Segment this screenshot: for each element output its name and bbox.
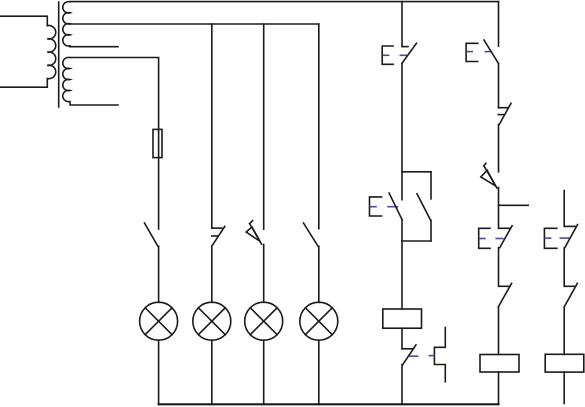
wire: parallel section bottom tee (402, 240, 431, 242)
wire: lamp branch 3 drop (263, 24, 265, 229)
pushbutton E (NC) top of branch A : label E (382, 46, 393, 64)
wire: K3 bottom stub (563, 372, 565, 404)
pushbutton E mid branch A : NO contact blade (389, 193, 402, 220)
wire: branch B to coil K2 (498, 307, 500, 355)
mechanical link blue dash left (410, 355, 417, 357)
wire: branch C (563, 248, 565, 286)
NC contact (double tick) branch B (498, 103, 511, 124)
NC contact above coil K2 (498, 283, 511, 307)
wire: aux contact to bottom rail (401, 365, 403, 405)
wire: branch C stub top (563, 191, 565, 227)
fuse F1 (153, 129, 162, 157)
aux NC contact below K1 (402, 345, 416, 365)
wire: branch B below triangle contact (498, 188, 500, 229)
lamp H2 (193, 302, 231, 404)
wire: top rail from secondary 1 top terminal (70, 1, 499, 3)
pushbutton E branch C : label E (544, 228, 556, 248)
wire: parallel section top tee (402, 171, 431, 173)
pushbutton E branch C : NC contact (565, 225, 578, 248)
parallel right contact (NO) upper wire (430, 172, 432, 199)
pushbutton E top branch B : NO contact blade (484, 40, 499, 64)
switch S2 (NC contact with ticks) (212, 226, 225, 302)
wire through fuse down to switch S1 (158, 129, 160, 229)
transformer T1 core (58, 2, 60, 107)
switch S4 (NO, blade left) (304, 223, 319, 302)
switch S1 (NO, blade left) (145, 223, 159, 302)
wire: secondary 2 feed to fuse branch (70, 58, 159, 130)
pushbutton E top branch B : label E (466, 43, 478, 61)
NC contact above coil K3 (564, 283, 577, 307)
wire: branch A to coil K1 (401, 241, 403, 309)
wire: branch A between contacts (401, 63, 403, 172)
pushbutton E top branch A : blue dashes (383, 54, 406, 56)
wire: branch C to coil K3 (563, 307, 565, 355)
transformer T1 primary winding (0, 16, 56, 87)
pushbutton E top branch A : NC contact (402, 43, 416, 63)
lamp H1 (140, 302, 178, 404)
aux NO contact (parallel blade style) beside K1 (434, 328, 445, 382)
bottom rail (159, 403, 499, 405)
wire: K1 to aux contact (401, 328, 403, 349)
pushbutton E top branch B : blue dashes (467, 51, 491, 53)
wire: branch B upper section (498, 64, 500, 108)
pushbutton E mid branch B : NC contact (499, 226, 512, 248)
parallel right lower wire (430, 220, 432, 241)
lamp H4 (300, 302, 338, 404)
stub tee to the right (499, 204, 529, 206)
switch S3 (NO limit switch with triangle) (246, 221, 264, 303)
wire: branch B (498, 124, 500, 171)
pushbutton E mid branch B : label E (479, 228, 490, 248)
mechanical link blue dash right (429, 355, 433, 357)
wire: branch B (498, 248, 500, 287)
pushbutton E branch C : blue dashes (545, 237, 569, 239)
coil K1 (383, 309, 422, 328)
pushbutton E mid branch A : label E (370, 197, 382, 216)
pushbutton E mid branch A : blue dashes (370, 206, 397, 208)
lamp H3 (245, 302, 283, 404)
wire: parallel left upper (401, 172, 403, 200)
wire: branch A drop from top rail (401, 2, 403, 47)
parallel right contact blade (417, 194, 431, 221)
wire: lamp branch 2 drop (211, 24, 213, 228)
wire: branch B corner from top rail (498, 2, 500, 47)
pushbutton E mid branch B : blue dashes (480, 238, 503, 240)
wire: lamp branch 4 drop (318, 24, 320, 229)
transformer T1 secondary winding 1 (center-tapped) (63, 2, 118, 47)
transformer T1 secondary winding 2 (63, 57, 118, 105)
wire: parallel left lower (401, 220, 403, 241)
coil K3 (545, 354, 584, 372)
wire: K2 to bottom rail (498, 372, 500, 404)
coil K2 (480, 355, 519, 373)
wire: second rail from secondary 1 center tap (70, 23, 319, 25)
limit switch contact with triangle, branch B (481, 163, 497, 188)
